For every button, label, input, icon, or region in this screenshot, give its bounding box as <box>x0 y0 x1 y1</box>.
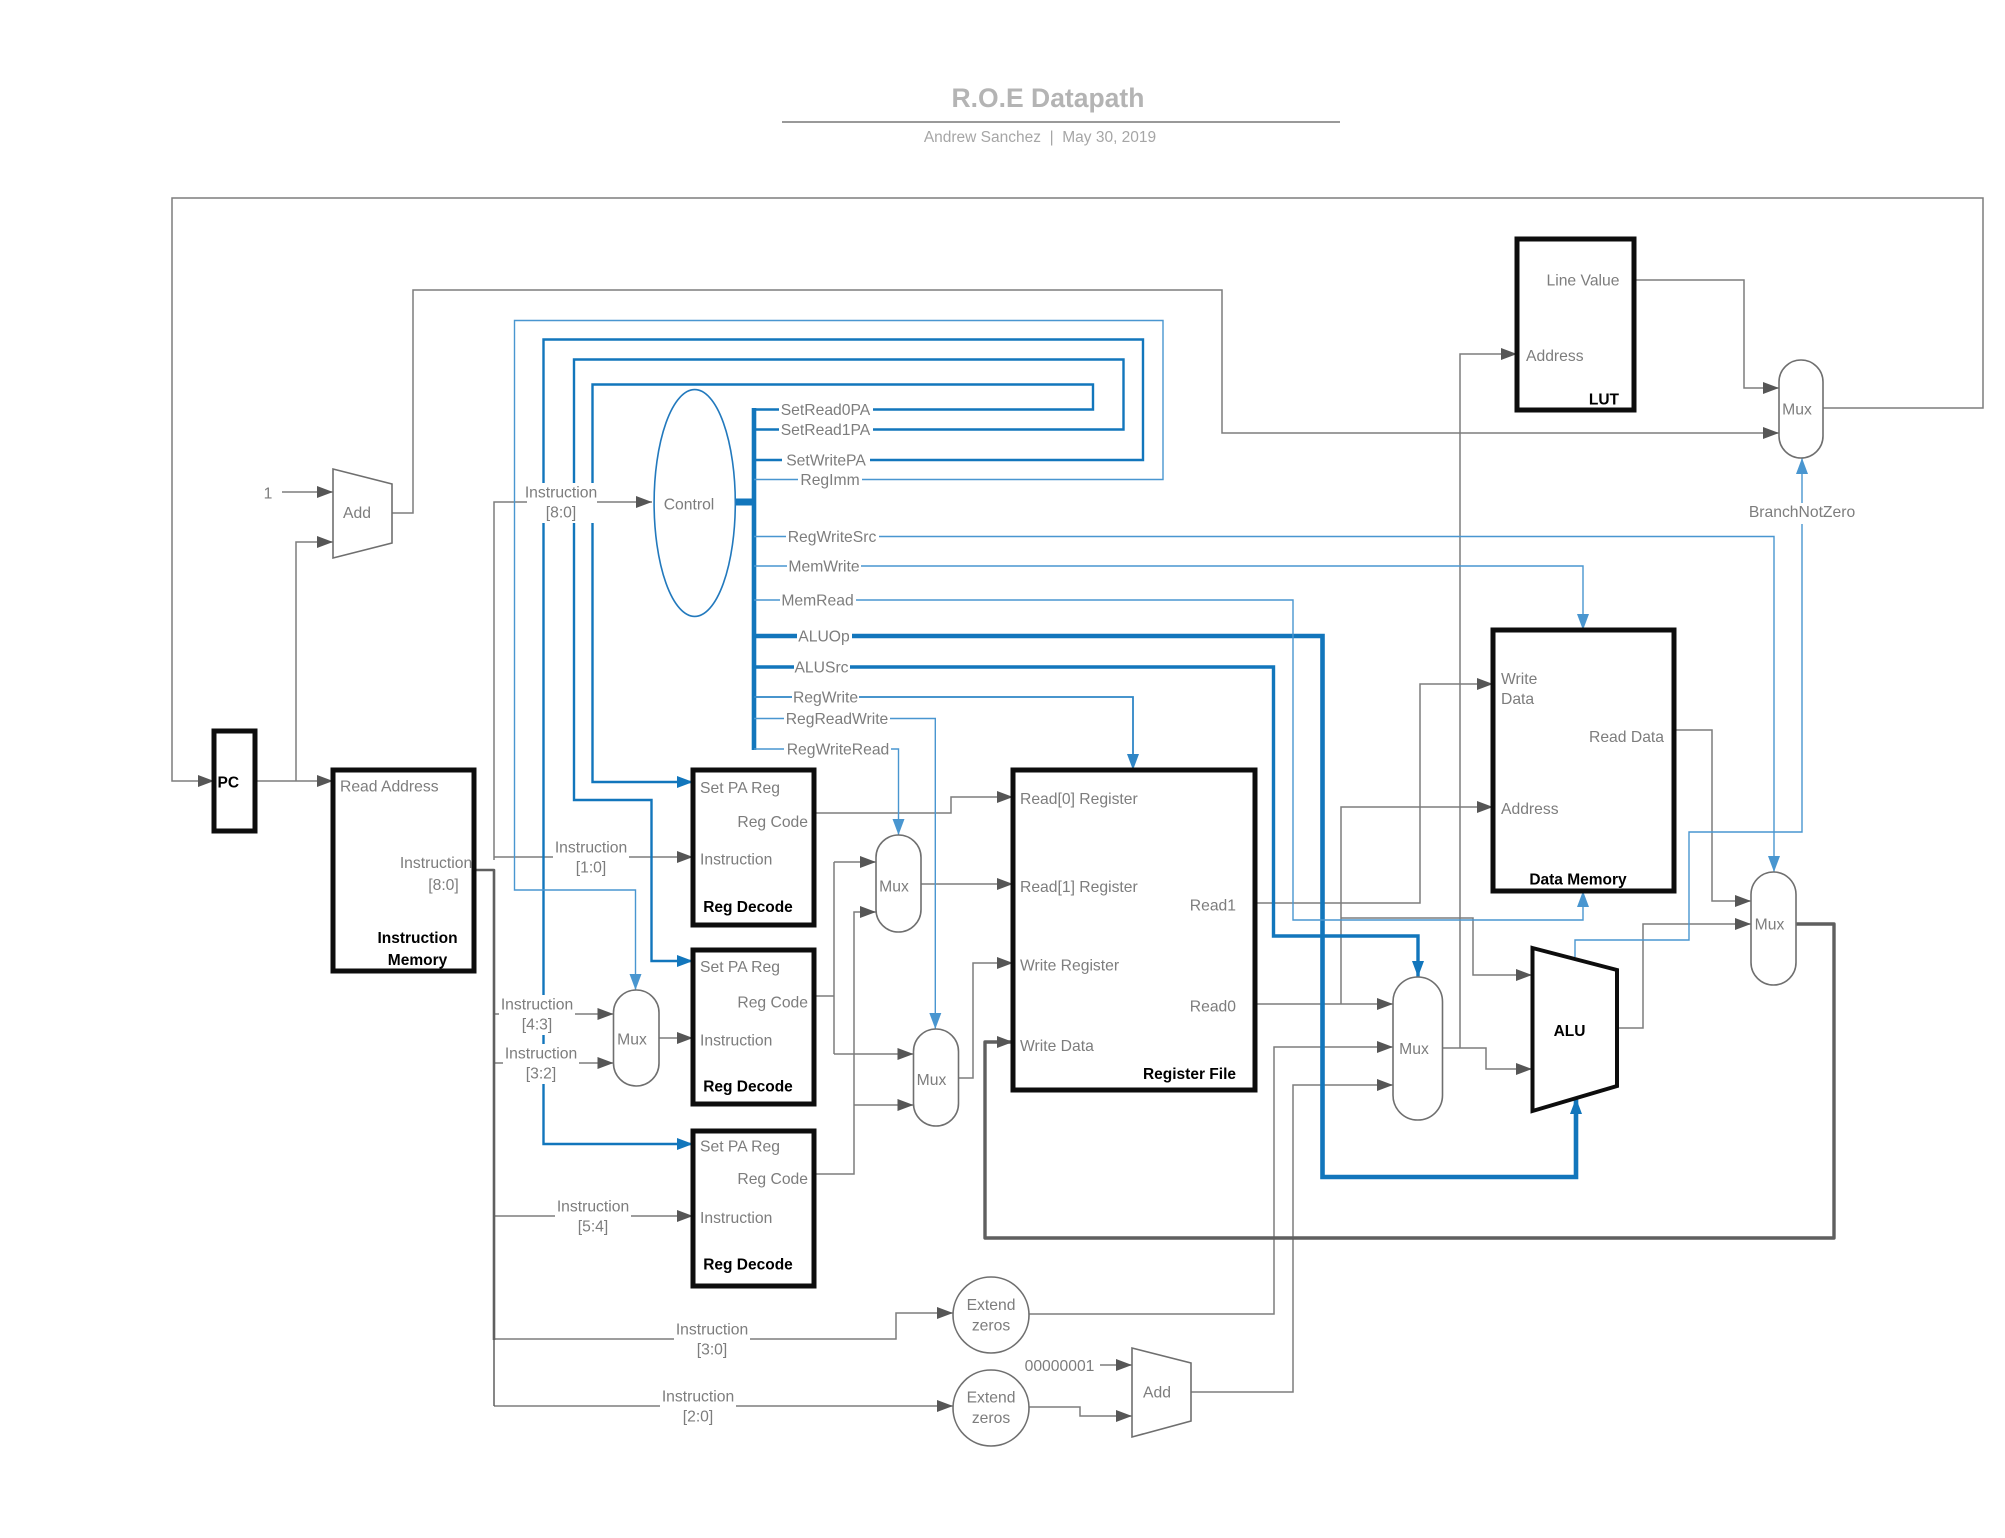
svg-text:Add: Add <box>343 505 371 522</box>
svg-text:Register File: Register File <box>1143 1066 1236 1083</box>
svg-text:Mux: Mux <box>1399 1041 1429 1058</box>
svg-text:Mux: Mux <box>617 1032 647 1049</box>
svg-text:ALUOp: ALUOp <box>798 629 850 646</box>
svg-text:zeros: zeros <box>972 1318 1011 1335</box>
svg-text:Write Register: Write Register <box>1020 958 1119 975</box>
svg-text:[4:3]: [4:3] <box>522 1017 553 1034</box>
svg-text:Read[1] Register: Read[1] Register <box>1020 879 1138 896</box>
svg-text:SetWritePA: SetWritePA <box>786 453 866 470</box>
svg-text:Mux: Mux <box>879 879 909 896</box>
svg-text:SetRead0PA: SetRead0PA <box>781 402 871 419</box>
svg-text:zeros: zeros <box>972 1410 1011 1427</box>
svg-text:Add: Add <box>1143 1385 1171 1402</box>
svg-text:00000001: 00000001 <box>1025 1358 1095 1375</box>
svg-text:Instruction: Instruction <box>700 1033 772 1050</box>
svg-text:Reg Decode: Reg Decode <box>703 1257 793 1274</box>
svg-text:R.O.E Datapath: R.O.E Datapath <box>952 83 1145 113</box>
svg-text:Address: Address <box>1526 348 1584 365</box>
svg-text:Write: Write <box>1501 671 1538 688</box>
svg-text:Mux: Mux <box>1782 402 1812 419</box>
svg-text:Read[0] Register: Read[0] Register <box>1020 791 1138 808</box>
svg-text:Extend: Extend <box>967 1297 1016 1314</box>
svg-text:Set PA Reg: Set PA Reg <box>700 1139 780 1156</box>
svg-text:Instruction: Instruction <box>676 1322 748 1339</box>
svg-text:Reg Code: Reg Code <box>737 1171 808 1188</box>
svg-text:Set PA Reg: Set PA Reg <box>700 780 780 797</box>
svg-text:Memory: Memory <box>388 952 448 969</box>
svg-text:Andrew Sanchez | May 30, 201: Andrew Sanchez | May 30, 2019 <box>924 129 1156 146</box>
svg-text:Reg Code: Reg Code <box>737 995 808 1012</box>
svg-text:Extend: Extend <box>967 1390 1016 1407</box>
svg-text:RegWriteRead: RegWriteRead <box>787 742 890 759</box>
svg-text:Data: Data <box>1501 691 1534 708</box>
svg-text:Instruction: Instruction <box>400 855 472 872</box>
svg-text:Instruction: Instruction <box>525 485 597 502</box>
svg-text:SetRead1PA: SetRead1PA <box>781 422 871 439</box>
svg-text:Write Data: Write Data <box>1020 1038 1094 1055</box>
svg-text:[8:0]: [8:0] <box>546 505 577 522</box>
svg-text:MemWrite: MemWrite <box>788 559 859 576</box>
svg-text:Mux: Mux <box>1755 917 1785 934</box>
svg-text:Data Memory: Data Memory <box>1529 872 1627 889</box>
svg-text:ALUSrc: ALUSrc <box>794 660 848 677</box>
svg-text:[3:0]: [3:0] <box>697 1342 728 1359</box>
svg-text:Instruction: Instruction <box>505 1046 577 1063</box>
svg-text:Read1: Read1 <box>1190 898 1236 915</box>
svg-text:Instruction: Instruction <box>700 1210 772 1227</box>
svg-text:[5:4]: [5:4] <box>578 1219 609 1236</box>
svg-text:RegWriteSrc: RegWriteSrc <box>788 529 877 546</box>
svg-text:Reg Decode: Reg Decode <box>703 1079 793 1096</box>
svg-text:1: 1 <box>264 486 273 503</box>
svg-text:[8:0]: [8:0] <box>428 877 459 894</box>
svg-text:Reg Decode: Reg Decode <box>703 899 793 916</box>
svg-text:LUT: LUT <box>1589 392 1620 409</box>
svg-text:Instruction: Instruction <box>557 1199 629 1216</box>
svg-text:Instruction: Instruction <box>377 930 457 947</box>
svg-text:Instruction: Instruction <box>662 1389 734 1406</box>
svg-text:[1:0]: [1:0] <box>576 860 607 877</box>
svg-text:Read0: Read0 <box>1190 999 1237 1016</box>
svg-text:BranchNotZero: BranchNotZero <box>1749 504 1856 521</box>
svg-text:Set PA Reg: Set PA Reg <box>700 959 780 976</box>
svg-text:Read Address: Read Address <box>340 779 439 796</box>
svg-text:Address: Address <box>1501 801 1559 818</box>
svg-text:Instruction: Instruction <box>501 997 573 1014</box>
svg-text:Read Data: Read Data <box>1589 729 1664 746</box>
svg-text:Instruction: Instruction <box>700 852 772 869</box>
svg-text:RegWrite: RegWrite <box>793 690 858 707</box>
svg-text:Line Value: Line Value <box>1547 273 1620 290</box>
svg-text:[2:0]: [2:0] <box>683 1409 714 1426</box>
svg-text:Reg Code: Reg Code <box>737 814 808 831</box>
svg-text:Control: Control <box>664 497 715 514</box>
svg-text:Instruction: Instruction <box>555 840 627 857</box>
svg-text:Mux: Mux <box>917 1072 947 1089</box>
svg-text:ALU: ALU <box>1554 1023 1586 1040</box>
svg-text:PC: PC <box>218 775 240 792</box>
svg-text:MemRead: MemRead <box>781 593 853 610</box>
svg-text:RegImm: RegImm <box>800 472 859 489</box>
svg-text:RegReadWrite: RegReadWrite <box>786 711 889 728</box>
svg-text:[3:2]: [3:2] <box>526 1066 557 1083</box>
